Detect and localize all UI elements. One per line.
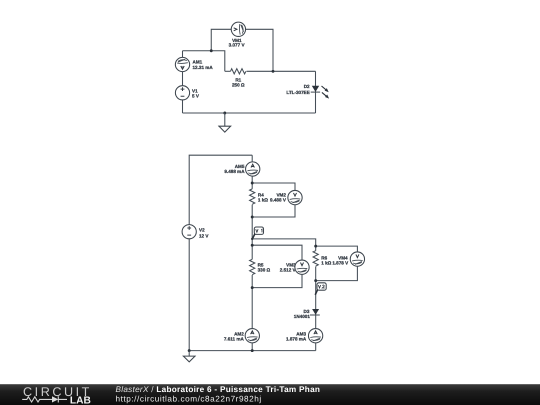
wire lower-left rail and top rail [189,155,252,350]
svg-text:1.878 V: 1.878 V [332,261,349,266]
junction dot AM2 bottom rail [251,349,254,352]
svg-text:2.512 V: 2.512 V [280,267,297,272]
junction dot top circuit VM1 right [272,70,275,73]
svg-text:http://circuitlab.com/c8a22n7r: http://circuitlab.com/c8a22n7r982hj [116,395,262,404]
wire VM4 loop bottom [316,259,358,281]
svg-text:12.31 mA: 12.31 mA [193,65,214,70]
ammeter AM1 [175,57,189,71]
wire VM3 loop bottom [252,267,302,288]
node tag V1 [252,227,263,239]
junction dot top ground [223,112,226,115]
junction dot VM3 bottom branch [251,286,254,289]
svg-text:LAB: LAB [70,396,91,405]
wire node V1 branch to right column [252,239,316,251]
wire AM1/V1 vertical branch [182,51,184,113]
ground lower circuit [183,351,196,362]
junction dot node V1 corner [251,238,253,240]
wire VM2 loop bottom [252,198,295,217]
LED D2 [311,86,320,92]
svg-text:330 Ω: 330 Ω [258,267,271,272]
wire main middle vertical upper (AM5 to R4) [251,155,253,189]
wire main middle vertical lower (R5 to bottom rail) [251,275,253,351]
svg-text:5 V: 5 V [192,94,200,99]
svg-text:1 kΩ: 1 kΩ [258,198,268,203]
ground top circuit [218,113,231,132]
resistor R1 [231,69,246,74]
svg-text:12 V: 12 V [199,233,209,238]
svg-text:D2: D2 [304,84,310,89]
ammeter AM2 [245,329,259,343]
junction dot lower ground [188,349,191,352]
svg-text:3.077 V: 3.077 V [229,43,246,48]
wire R1 right lead to LED corner [247,70,316,72]
wire R1 left lead [225,70,231,72]
junction dot AM5 bottom [251,182,254,185]
voltage source V1 [175,86,189,100]
svg-text:V2: V2 [199,228,205,233]
ammeter AM3 [308,329,322,343]
node tag V2 [315,283,326,295]
voltmeter VM4 [350,252,364,266]
wire VM3 loop top [252,245,302,267]
footer logo diode symbol [52,396,58,402]
junction dot R6 bottom [314,279,317,282]
voltmeter VM1 [231,22,245,36]
voltmeter VM2 [288,190,302,204]
wire VM2 loop top [252,183,295,198]
resistor R6 [313,251,318,266]
svg-text:1N4001: 1N4001 [294,314,311,319]
resistor R4 [250,189,255,204]
svg-text:LTL-307EE: LTL-307EE [286,90,309,95]
wire right column below R6 down to bottom rail [315,267,317,351]
junction dot VM3 top branch [251,244,254,247]
wire main middle vertical mid (R4 to R5) [251,205,253,260]
footer logo diode bar and line [58,396,67,402]
wire bottom rail of top circuit [183,112,316,114]
svg-text:1.878 mA: 1.878 mA [286,336,307,341]
svg-text:7.611 mA: 7.611 mA [224,336,245,341]
svg-text:BlasterX / Laboratoire 6 - Pui: BlasterX / Laboratoire 6 - Puissance Tri… [116,385,321,394]
voltage source V2 [182,225,196,239]
LED D2 emission arrows [322,86,330,99]
wire bottom rail lower circuit [189,350,316,352]
svg-text:1 kΩ: 1 kΩ [321,261,331,266]
resistor R5 [250,259,255,274]
wire VM1 loop: up from junction, through VM1, down to R1 output [211,29,273,71]
svg-text:9.488 mA: 9.488 mA [224,169,245,174]
svg-text:250 Ω: 250 Ω [232,83,245,88]
wire VM4 loop top [316,246,358,259]
junction dot top circuit VM1 left [210,49,213,52]
wire LED branch vertical [315,71,317,113]
diode D3 [310,309,320,315]
footer logo squiggle wire [22,397,52,402]
svg-text:AM1: AM1 [193,59,203,64]
voltmeter VM3 [295,260,309,274]
footer bar [0,384,540,405]
ammeter AM5 [246,162,260,176]
wire top-left horizontal from AM1 top to corner [183,51,225,72]
junction dot R4 bottom [251,216,254,219]
junction dot R6 top [314,245,317,248]
svg-text:9.488 V: 9.488 V [270,198,287,203]
